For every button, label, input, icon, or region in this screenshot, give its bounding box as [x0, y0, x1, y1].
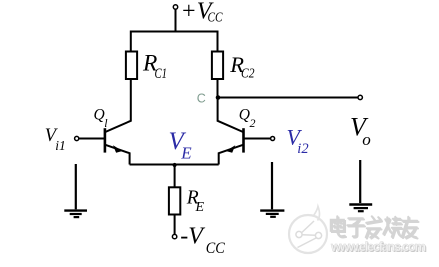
- svg-text:o: o: [362, 130, 371, 149]
- svg-text:C: C: [197, 92, 206, 106]
- svg-text:CC: CC: [208, 11, 224, 26]
- svg-text:C2: C2: [241, 67, 255, 82]
- svg-text:C1: C1: [155, 66, 168, 82]
- svg-text:i2: i2: [297, 141, 308, 157]
- svg-text:Q: Q: [239, 107, 250, 124]
- svg-text:-V: -V: [180, 224, 205, 250]
- svg-text:Q: Q: [94, 106, 105, 123]
- svg-text:E: E: [195, 200, 205, 215]
- svg-text:i1: i1: [55, 138, 66, 153]
- svg-text:www.elecfans.com: www.elecfans.com: [330, 239, 426, 254]
- svg-text:2: 2: [250, 116, 256, 130]
- svg-text:CC: CC: [206, 240, 225, 257]
- svg-text:E: E: [180, 143, 192, 162]
